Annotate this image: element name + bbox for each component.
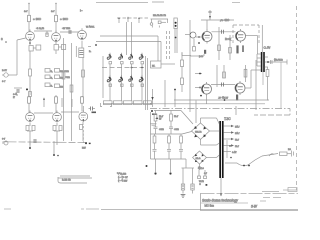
signal corner b <box>160 42 162 62</box>
input bracket wire <box>151 19 169 23</box>
trim pot P3 <box>129 53 133 60</box>
heater dashed enclosure <box>233 25 259 43</box>
svg-text:3-W: 3-W <box>251 205 258 209</box>
power switch S301 <box>269 154 274 156</box>
mid rail c <box>216 65 218 87</box>
trim pot P2 <box>119 53 123 60</box>
dark label right of V106 <box>92 112 97 114</box>
fuse F301 <box>280 152 292 155</box>
wire hook b <box>110 103 112 107</box>
fuse/switch cluster <box>198 170 207 179</box>
node dot V101 cathode <box>29 42 31 44</box>
BR301 top vertex wire <box>201 118 217 123</box>
grid left rail <box>102 56 104 98</box>
trim pot P8 <box>139 75 143 82</box>
T301 left stubs <box>217 118 220 158</box>
svg-text:w /wcr.: w /wcr. <box>86 25 95 29</box>
wire hook a <box>101 103 103 107</box>
ground bus channel B <box>3 141 88 144</box>
output tube V204 <box>235 81 245 95</box>
PSU cap C302 <box>169 127 173 134</box>
cathode network V104 <box>26 123 35 145</box>
riser 2 <box>131 22 133 55</box>
V205 resistor <box>193 39 196 51</box>
svg-text:-nr rnn: -nr rnn <box>62 26 71 30</box>
title block marks above <box>199 184 207 186</box>
secondary load resistor R207 <box>266 67 269 101</box>
rail resistor R105 <box>70 85 73 92</box>
page right border (dashed) <box>296 6 298 190</box>
wire V102-V103 <box>60 31 79 33</box>
node dot sec <box>267 61 269 63</box>
wire V105-V106 <box>61 111 79 113</box>
PSU cap C303 <box>153 150 157 160</box>
input ring <box>150 23 153 26</box>
triode V103 <box>78 28 87 40</box>
page bottom border <box>4 209 298 210</box>
filter cap C311 <box>191 184 194 194</box>
signal wire upper <box>100 35 158 37</box>
drop wire x44 <box>43 97 45 107</box>
signal wire lower <box>96 41 161 43</box>
B+ entry arrow <box>208 10 212 20</box>
feed tick 3 <box>138 17 140 23</box>
dashed riser a <box>166 31 168 60</box>
plate resistor R113 <box>81 96 84 112</box>
svg-text:n,: n, <box>51 70 53 73</box>
PSU bottom bus <box>151 158 187 160</box>
marks right of V103 cathode <box>88 44 97 53</box>
svg-text:(rn.rw.n: (rn.rw.n <box>274 58 283 62</box>
PSU left rail <box>150 112 152 159</box>
svg-text:a-r: a-r <box>24 9 27 13</box>
V106 plate lead <box>82 106 84 112</box>
feed tick 1 <box>118 17 120 23</box>
OPT bottom stub <box>262 72 264 85</box>
left edge glyph top <box>1 37 7 43</box>
svg-text:5nr.e: 5nr.e <box>198 166 204 170</box>
top wire bus segment 2 <box>152 1 164 3</box>
PSU top bus <box>154 110 181 112</box>
mid dash bus <box>102 67 144 69</box>
grid right rail a <box>145 56 147 110</box>
svg-text:=nn: =nn <box>65 75 70 79</box>
connector J201 <box>174 18 177 29</box>
input wire to V101 grid <box>17 38 26 40</box>
svg-text:nr.: nr. <box>152 64 155 68</box>
mid-left coupling network row 1 <box>45 69 63 74</box>
junction dot g2 <box>141 67 143 69</box>
OPT primary stubs <box>257 54 261 66</box>
cathode network V102 <box>54 42 66 54</box>
filter cap bracket <box>182 168 195 184</box>
T301 secondary tap 4 <box>224 144 234 146</box>
V203 cathode mark b <box>242 45 244 52</box>
B+ rail 2 <box>71 43 73 141</box>
BR302 output wire <box>206 157 216 159</box>
PSU cap C304 <box>167 150 171 160</box>
decouple cap C105 <box>14 88 22 93</box>
output tube V203 <box>236 29 246 43</box>
dashed riser b <box>169 31 171 60</box>
svg-text:.w 4br.rr: .w 4br.rr <box>218 96 228 100</box>
svg-text:nnr: nnr <box>82 146 86 150</box>
column drop 3 <box>131 64 133 101</box>
driver bottom wires <box>196 96 207 123</box>
node dot bus 2 <box>53 154 55 156</box>
bus end tick <box>89 143 91 144</box>
drop wire x62 <box>61 98 63 107</box>
tick marks <box>152 26 159 28</box>
svg-text:+nn: +nn <box>159 127 164 131</box>
driver tube V201 <box>202 30 212 44</box>
node dot bus 1 <box>29 147 31 149</box>
triode V106 <box>79 110 88 122</box>
mains node dot 1 <box>243 165 245 167</box>
grid bus B <box>34 112 53 114</box>
rev dot <box>146 165 148 167</box>
title block top edge <box>201 192 299 194</box>
wire U202 right <box>161 63 175 65</box>
B+ rail 1 <box>63 38 65 141</box>
mid bus to bridge <box>182 132 192 135</box>
chassis dash-dot line <box>150 108 290 110</box>
bus y104 <box>150 103 265 105</box>
resistor row line <box>103 102 152 104</box>
cap glyph right of V106 <box>89 107 96 111</box>
wire corner lower <box>182 52 191 56</box>
mains wire run <box>225 154 278 166</box>
label V201 grid marks <box>196 36 203 44</box>
riser pair left <box>175 29 177 54</box>
svg-text:*r*rn.nn: *r*rn.nn <box>117 172 127 176</box>
feedback riser <box>280 62 282 109</box>
bridge rectifier BR302 <box>193 151 207 164</box>
svg-text:n,: n, <box>51 77 53 80</box>
page top edge marks <box>232 2 240 4</box>
input jack J102 <box>2 137 8 146</box>
drop wire x72 <box>71 99 73 107</box>
V203 plate wire <box>246 36 258 55</box>
pot2 lower box 1 <box>109 84 112 86</box>
rail x83 <box>82 58 85 98</box>
mid rail d <box>223 65 226 78</box>
pot2 lower box 3 <box>131 84 134 86</box>
filter cap C310 <box>181 184 184 194</box>
column drop 2 <box>121 64 123 101</box>
svg-text:n-rv: n-rv <box>2 68 7 72</box>
signal corner a <box>157 36 159 61</box>
cathode network V105 <box>53 123 62 145</box>
svg-text:w.rn: w.rn <box>199 179 204 183</box>
PSU resistor R301 <box>154 111 157 128</box>
V106 cathode drop (dashed) <box>82 126 84 143</box>
V201 cathode mark <box>204 50 206 54</box>
plate resistor R111 <box>28 95 31 113</box>
plate resistor R102 <box>55 3 58 33</box>
grid resistor column RA <box>181 53 184 74</box>
svg-text:C.JN: C.JN <box>264 46 272 50</box>
driver plate wire V201 <box>201 20 234 30</box>
pot2 lower box 4 <box>141 84 144 86</box>
PSU rail top dot <box>151 110 153 112</box>
plate resistor R112 <box>55 95 58 113</box>
svg-text:=nn: =nn <box>64 69 69 73</box>
svg-text:MC linn: MC linn <box>205 204 215 208</box>
PSU resistor R302 <box>170 111 173 128</box>
NFB drop <box>151 89 153 107</box>
BR301 output wire <box>210 130 217 132</box>
cathode network V101 (Rk+Ck) <box>29 41 41 54</box>
triode V102 <box>52 31 61 43</box>
screen resistor V204 <box>244 65 247 82</box>
PSU resistor R305 <box>180 134 183 149</box>
svg-text:(—')> nr: (—')> nr <box>118 175 128 179</box>
PSU resistor R304 <box>168 134 171 149</box>
row resistor R122 <box>114 101 123 105</box>
svg-text:an.a: an.a <box>196 157 201 160</box>
title block inner divider <box>201 202 248 204</box>
bus end dot <box>85 142 87 144</box>
rail b resistor <box>229 48 232 54</box>
grid bus wire A <box>34 30 52 32</box>
coupling wire A <box>212 31 236 33</box>
grid right rail b <box>147 58 149 110</box>
mains node dot 2 <box>248 165 250 167</box>
top wire bus <box>96 2 148 4</box>
svg-text:Sonic-Soma technology: Sonic-Soma technology <box>202 199 238 203</box>
inline component <box>158 21 166 24</box>
PSU feed diagonal <box>181 111 193 125</box>
svg-text:a-r: a-r <box>51 9 54 13</box>
mid-left coupling network row 2 <box>45 75 63 80</box>
BR302 bottom vertex wire <box>198 164 200 170</box>
PSU cap C305 <box>179 150 183 160</box>
output end bar <box>286 60 288 65</box>
coupling cap C103 <box>69 30 71 34</box>
title cell marks top right <box>262 188 297 192</box>
feed tick 2 <box>127 17 129 23</box>
output wire 8ohm <box>268 61 287 63</box>
driver tube V202 <box>202 82 212 96</box>
PSU rail ground <box>150 124 157 125</box>
svg-text:+nn: +nn <box>174 127 179 131</box>
bracket feed stub <box>185 159 187 168</box>
svg-text:n.nn rn: n.nn rn <box>62 178 71 182</box>
mid rail b <box>229 35 231 60</box>
bleeder stub 1 <box>154 159 156 175</box>
column drop 1 <box>109 64 111 101</box>
node dot bus 3 <box>57 155 59 157</box>
mid-left dark labels <box>64 69 70 79</box>
svg-text:c.r: c.r <box>204 171 207 175</box>
PSU arrow mark <box>156 117 159 119</box>
svg-text:T.3C: T.3C <box>224 117 231 121</box>
bus y100 <box>174 99 269 101</box>
PSU resistor R303 <box>153 134 156 149</box>
OPT B+ feed <box>261 25 263 52</box>
triode V101 <box>26 30 35 42</box>
svg-text:p.n: p.n <box>199 54 203 58</box>
ground C310 <box>181 195 186 198</box>
triode V104 <box>26 111 35 123</box>
left drop rail a <box>164 80 166 107</box>
triode V105 <box>53 111 62 123</box>
OPT secondary stubs <box>265 57 268 67</box>
V204 lower stub <box>235 106 237 115</box>
svg-text:rn.r: rn.r <box>235 144 239 148</box>
svg-text:rn.r: rn.r <box>159 114 163 118</box>
V203 cathode mark a <box>236 45 238 53</box>
right long rail <box>255 60 257 110</box>
V101 chain lower resistor <box>29 92 32 97</box>
bus dot a <box>200 95 202 97</box>
grid resistor R103 <box>46 31 48 36</box>
T301 secondary tap 5 <box>224 151 231 153</box>
trim pot P7 <box>129 75 133 82</box>
svg-text:(—'l nnr: (—'l nnr <box>118 179 127 183</box>
long rail x190 <box>189 20 191 112</box>
mid-left coupling network row 3 <box>45 83 63 89</box>
input wire riser <box>16 40 18 75</box>
coupling cap C201 <box>222 30 224 34</box>
T301 bottom lead <box>220 178 222 196</box>
dark node dot x27 <box>26 88 28 90</box>
V204 cathode mark <box>236 95 238 101</box>
coupling cap C202 <box>222 83 224 87</box>
svg-text:rn.r: rn.r <box>174 114 178 118</box>
svg-text:e-r: e-r <box>2 137 5 141</box>
svg-text:e r: e r <box>2 79 5 83</box>
row resistor R125 <box>144 101 152 105</box>
cathode network V106 <box>80 122 84 141</box>
svg-text:rn.r: rn.r <box>235 138 239 142</box>
trim pot P4 <box>139 53 143 60</box>
svg-text:+ 30C: + 30C <box>60 17 69 21</box>
output coupling cap <box>271 60 273 64</box>
output transformer T201 core <box>261 52 265 72</box>
power transformer T301 core <box>219 121 223 178</box>
trim pot P6 <box>119 75 123 82</box>
tap bracket vertical <box>227 140 232 158</box>
stub below bus 2 <box>53 141 55 154</box>
small box U202 <box>151 61 162 68</box>
svg-text:i--: i-- <box>80 9 83 13</box>
title cell dashes mid <box>260 198 281 202</box>
AC inlet marks <box>292 151 294 157</box>
note box <box>58 176 92 183</box>
pot lower box 1 <box>109 62 112 64</box>
mid rail a <box>218 27 220 60</box>
pot lower box 4 <box>141 62 144 64</box>
dropper chain V101 anode <box>29 54 32 95</box>
T301 secondary tap 1 <box>224 125 234 127</box>
bus cap C115 <box>34 139 36 143</box>
row resistor R124 <box>134 101 143 105</box>
svg-text:n3.r: n3.r <box>235 125 240 129</box>
title block left edge <box>200 193 202 210</box>
pot lower box 3 <box>131 62 134 64</box>
rail a resistor <box>218 45 221 51</box>
svg-text:n.: n. <box>89 50 91 53</box>
grid feed bus (dashed) <box>117 17 148 19</box>
PSU mid bus <box>151 133 183 135</box>
small tube V205 <box>185 32 196 38</box>
rail resistor R104 <box>62 72 65 79</box>
cathode network V103 (hatched) <box>76 41 84 58</box>
junction dot g1 <box>131 67 133 69</box>
BR301 bottom vertex wire <box>201 139 217 145</box>
stub below bus 1 <box>29 141 31 147</box>
grid corner wire <box>190 54 204 56</box>
svg-text:-n n,rn: -n n,rn <box>36 26 45 30</box>
bleeder stub 2 <box>169 159 171 175</box>
left drop rail b <box>174 89 176 107</box>
trim pot P5 <box>107 75 111 82</box>
grid resistor column RB <box>181 74 184 92</box>
V202 grid marks <box>195 87 202 89</box>
input jack J101 <box>2 73 17 77</box>
plate resistor R101 <box>28 3 31 32</box>
svg-text:e.3r: e.3r <box>232 150 237 154</box>
column drop 4 <box>141 64 143 101</box>
svg-text:n.: n. <box>51 85 53 88</box>
row resistor R123 <box>124 101 133 105</box>
T301 secondary tap 3 <box>224 138 234 140</box>
row resistor R121 <box>104 101 113 105</box>
svg-text:an.r.a: an.r.a <box>195 130 202 134</box>
svg-text:+ 30C: + 30C <box>33 17 42 21</box>
T301 secondary tap 2 <box>224 131 234 133</box>
pot lower box 2 <box>121 62 124 64</box>
svg-text:n3.r: n3.r <box>235 131 240 135</box>
PSU cap C301 <box>154 127 158 134</box>
bridge rectifier BR301 <box>192 123 210 139</box>
chassis corner <box>254 109 290 116</box>
trim pot P1 <box>107 53 111 60</box>
wire left to V202 <box>195 73 202 75</box>
svg-text:nn.rn.rn rn: nn.rn.rn rn <box>153 13 166 17</box>
bus dot b <box>224 99 226 101</box>
V204 plate wire <box>245 70 261 88</box>
coupling wire B <box>211 84 235 86</box>
pot2 lower box 2 <box>121 84 124 86</box>
PSU rail dash <box>152 114 157 115</box>
riser 1 <box>126 22 128 55</box>
